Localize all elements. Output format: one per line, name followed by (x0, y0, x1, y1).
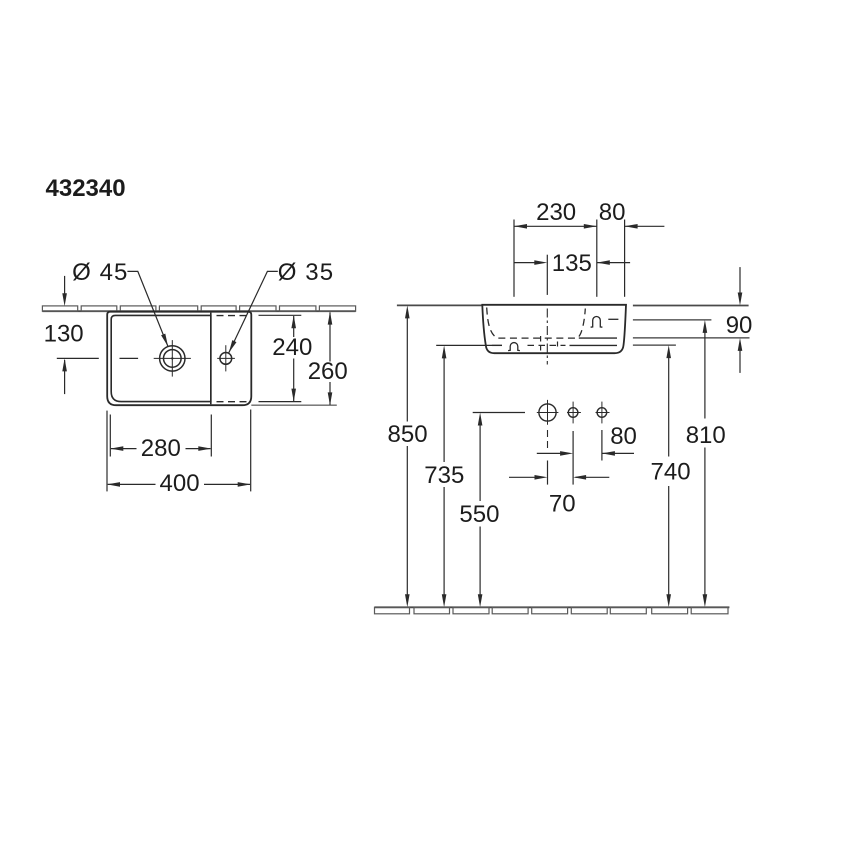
floor tile row (375, 607, 729, 614)
735 level reference line (436, 344, 502, 346)
upper fixing level dash (front, inside) (608, 318, 618, 320)
dimension 230 (514, 225, 597, 227)
svg-text:850: 850 (388, 421, 428, 448)
dimension 135 (514, 262, 630, 264)
svg-text:230: 230 (536, 199, 576, 226)
vertical centerline (front, dash-dot) (546, 309, 548, 365)
lower fixing hole symbol (508, 343, 520, 351)
svg-text:400: 400 (160, 470, 200, 497)
svg-text:80: 80 (610, 423, 637, 450)
centerline below faucet hole (dashed) (547, 430, 549, 449)
upper fixing hole symbol (591, 317, 603, 328)
rim bottom edge extension (plan) (251, 404, 336, 406)
washbasin outer rim (plan) (107, 312, 251, 406)
extension line centre (70 dim) (547, 461, 549, 485)
hole 70 (front) (568, 408, 578, 418)
740 level line right (633, 344, 676, 346)
dimension 400 (108, 483, 250, 485)
hole D35 (plan) (220, 353, 232, 365)
lower fixing hidden dashes (front, inside) (528, 344, 566, 346)
lower fixing level dash left (front, inside) (492, 344, 502, 346)
top extension lines (230/80/135) (514, 220, 625, 297)
centerline dash inside basin (120, 357, 139, 359)
extension line hole-70 (572, 431, 574, 485)
wall tile row (plan) (42, 306, 355, 311)
deck hidden edge bottom (dashed, plan) (217, 401, 250, 403)
dimension 80 middle (537, 452, 634, 454)
dimension 550 (479, 425, 481, 596)
dimension 130 (64, 276, 66, 394)
90 bottom level line right (633, 337, 750, 339)
deck hidden edge top (dashed, plan) (217, 315, 251, 317)
svg-text:Ø 35: Ø 35 (278, 259, 333, 286)
lower fixing level line (front, inside) (570, 344, 618, 346)
centerline extension left (57, 357, 99, 359)
550 level reference line (473, 412, 525, 414)
svg-text:810: 810 (686, 422, 726, 449)
svg-text:90: 90 (726, 312, 753, 339)
hole D35 centermark (217, 345, 235, 371)
wall line left of basin (397, 304, 483, 306)
svg-text:550: 550 (459, 501, 499, 528)
dimension 280 extension lines (110, 415, 211, 457)
wall surface line (plan) (42, 310, 355, 312)
floor surface line (375, 606, 730, 608)
dimension 280 (111, 448, 211, 450)
drain hidden line right (dashed) (557, 342, 559, 351)
leader D35 (229, 271, 278, 352)
dimension 90 (739, 267, 741, 373)
svg-text:70: 70 (549, 491, 576, 518)
dimension 740 (668, 357, 670, 596)
svg-text:Ø 45: Ø 45 (72, 259, 127, 286)
basin interior hidden line (dashed, front) (487, 308, 586, 339)
dimension 810 (704, 332, 706, 596)
svg-text:280: 280 (141, 435, 181, 462)
svg-text:130: 130 (44, 321, 84, 348)
washbasin body (front) (482, 305, 626, 353)
dimension 400 extension lines (107, 410, 251, 492)
dimension 850 (406, 318, 408, 596)
basin divider line (plan) (210, 313, 212, 405)
svg-text:135: 135 (552, 250, 592, 277)
inner basin (plan) (111, 315, 211, 401)
dimension 240 (293, 316, 295, 401)
faucet hole D45 (plan) (160, 346, 185, 371)
rim level line right (850 level) (633, 305, 749, 307)
dimension 735 (443, 358, 445, 596)
dimension 70 (509, 476, 609, 478)
dimension 80 top (625, 225, 665, 227)
810 level line right (633, 319, 712, 321)
svg-text:80: 80 (599, 199, 626, 226)
extension line hole-80 (601, 430, 603, 461)
faucet hole D45 (front) (539, 404, 556, 421)
dimension 240 extension lines (259, 315, 302, 401)
hole 80 (front) (597, 408, 607, 418)
svg-text:432340: 432340 (46, 175, 126, 202)
dimension 260 (329, 312, 331, 404)
leader D45 (127, 271, 168, 346)
back shelf edge line (front, inside) (579, 337, 617, 339)
drain hidden line left (dashed) (540, 336, 542, 351)
svg-text:740: 740 (651, 459, 691, 486)
svg-text:260: 260 (308, 358, 348, 385)
svg-text:240: 240 (272, 334, 312, 361)
faucet hole D45 centermark (154, 340, 191, 377)
svg-text:735: 735 (424, 462, 464, 489)
